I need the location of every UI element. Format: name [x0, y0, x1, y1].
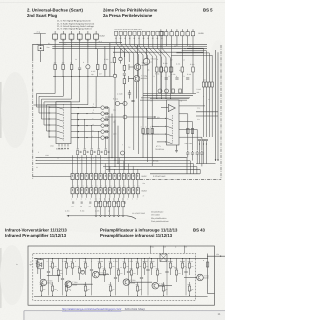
resistor R18: [131, 259, 133, 270]
transistor T2115: [86, 65, 90, 69]
IC bottom pins: [58, 144, 60, 147]
IC71 internal switch column: [172, 115, 174, 143]
fan pin numbers: [115, 37, 117, 39]
wire contact drop 2: [111, 114, 113, 158]
transistor T7310: [65, 281, 72, 288]
capacitor at 62.5: [62, 259, 64, 279]
wire diode top: [40, 258, 42, 259]
wires IC outputs right: [71, 107, 101, 109]
output wire to page edge: [208, 255, 225, 257]
wire fan collector: [150, 98, 189, 100]
wire audio 21b: [59, 42, 122, 44]
right margin resistors: [202, 82, 204, 87]
capacitor at 148: [147, 259, 149, 270]
links row A to row B: [72, 180, 74, 188]
resistor R26: [176, 259, 178, 270]
wires from BU55 pins down: [160, 36, 162, 67]
wire between bubbles: [120, 103, 123, 105]
contact bubble g: [115, 101, 119, 105]
capacitor C2130: [131, 100, 134, 101]
resistor R5: [58, 259, 60, 270]
caps cluster below IC71: [186, 153, 189, 154]
resistor R3: [52, 259, 54, 263]
chassis boundary left solid: [32, 44, 34, 58]
wire right margin v1: [215, 50, 217, 161]
wire from border to switch IC: [34, 104, 57, 106]
resistor R13: [104, 259, 106, 270]
capacitor at 48.5: [48, 259, 50, 272]
ground bracket: [67, 215, 127, 217]
resistor R28: [189, 259, 191, 263]
ground symbol: [175, 151, 178, 153]
resistor row below connector: [95, 198, 97, 202]
wires IC outputs down to RC pairs: [77, 114, 79, 150]
small caps below connector: [72, 202, 74, 203]
resistor R29: [189, 282, 191, 286]
contact circles row right: [158, 89, 162, 93]
capacitor at 115.5: [115, 259, 117, 278]
capacitor at 167: [166, 259, 168, 272]
IC left pins with switch arms: [51, 106, 57, 108]
capacitor C2127: [128, 93, 131, 94]
junction dots scart bus: [108, 157, 109, 158]
resistor R right column: [206, 262, 208, 267]
IC71 ground stub: [176, 145, 178, 151]
resistor R12: [99, 259, 101, 263]
resistor R2117: [96, 65, 99, 70]
IC IC71 TEA2014: [167, 100, 180, 145]
scart bus horizontal wires: [36, 157, 188, 159]
resistor R2125: [123, 79, 126, 84]
resistor R2121: [113, 58, 116, 63]
resistor R2: [41, 282, 43, 286]
legend pin functions: [57, 20, 95, 31]
resistor R14: [110, 259, 112, 263]
bus wire frame top: [32, 43, 207, 45]
header title German/English: [27, 8, 83, 19]
contact bubble mid: [81, 270, 85, 274]
footer rule: [24, 310, 225, 312]
base connection wires: [47, 275, 61, 277]
resistor R20: [137, 282, 139, 286]
wires transistor outputs to right: [143, 93, 196, 95]
resistors right of IC71: [187, 129, 190, 134]
IC71 right pins: [179, 105, 205, 107]
capacitor at 186: [185, 259, 187, 272]
transistor T7320: [123, 279, 130, 286]
resistor R2118: [104, 65, 107, 70]
resistor R19: [137, 259, 139, 263]
resistor R22: [151, 259, 153, 263]
transistor T7305: [40, 279, 47, 286]
resistor R27: [182, 259, 184, 263]
resistor R2113: [70, 65, 73, 70]
resistor R10: [85, 259, 87, 263]
wire stub: [108, 107, 110, 109]
wire border to connector: [33, 176, 71, 178]
resistor R21: [144, 259, 146, 263]
wire contact drop 4: [117, 126, 119, 164]
resistor R2123: [123, 65, 126, 70]
contact bubble h: [123, 101, 127, 105]
resistor R7: [66, 282, 68, 286]
connector BU52 top row contacts: [53, 31, 99, 39]
resistor R24: [163, 282, 165, 286]
IC internal switch column: [63, 104, 65, 141]
wires from BU52 pins down: [54, 39, 56, 64]
transistor T7325: [152, 282, 159, 289]
wires into connector row A: [72, 155, 74, 173]
fan resistors mid row: [142, 129, 145, 134]
bracket curve: [127, 216, 136, 219]
caps row BU55 columns: [165, 78, 168, 79]
op-amp triangle inside IC71: [168, 105, 175, 112]
resistor R23: [157, 259, 159, 270]
arrowheads right margin: [215, 159, 217, 161]
bus wire lower: [52, 48, 207, 50]
RC pairs above connector: [77, 151, 79, 155]
second header French/Italian: [100, 228, 178, 239]
scan mottling: [0, 82, 2, 138]
wire to R2121: [113, 46, 115, 57]
transistor above connector: [121, 151, 125, 155]
wire right margin h3: [196, 163, 216, 165]
transistor T2125: [134, 64, 140, 70]
contact bubble 21c: [119, 57, 122, 60]
resistor R6: [66, 259, 68, 263]
coil L7327: [160, 254, 167, 262]
wire contact drop 1: [108, 108, 110, 172]
wires from IC71 right pins down: [187, 114, 189, 151]
capacitor at 91.5: [91, 259, 93, 270]
IC71 input pin top: [161, 107, 168, 109]
stepped wires entering switch IC: [37, 77, 56, 108]
header title French/Italian: [103, 8, 158, 19]
chassis boundary bottom dash-dot: [140, 179, 221, 181]
wire T7125-T7120: [137, 70, 139, 75]
wires into box from labels above: [150, 246, 152, 254]
supply rail +: [34, 257, 208, 259]
bus wire third: [113, 51, 204, 53]
wire right margin h1: [196, 111, 218, 113]
resistor R2112: [62, 65, 65, 70]
resistor R17: [124, 259, 126, 263]
wire T7125 collector: [137, 45, 139, 64]
right margin caps cluster: [198, 139, 201, 140]
wire contact drop 3: [114, 120, 116, 161]
wire merged bus: [150, 173, 200, 175]
wire to border bottom: [208, 293, 215, 295]
stubs below row B: [72, 194, 74, 198]
wire T7120 emitter: [136, 82, 138, 99]
resistor R2111: [54, 65, 57, 70]
resistor R16: [118, 259, 120, 270]
resistor R15: [110, 282, 112, 286]
resistor R1: [37, 259, 39, 262]
socket bubble and wire to BS41: [105, 116, 123, 118]
capacitor C2114: [78, 68, 81, 69]
bus wire upper: [52, 45, 207, 47]
second header Infrarot German/English: [5, 228, 67, 239]
wire right margin h2: [196, 115, 218, 117]
chassis boundary left dash-dot: [32, 58, 34, 180]
wire right margin v2: [217, 52, 219, 161]
preamp outer border: [28, 246, 215, 305]
transistor T2120: [134, 76, 140, 82]
fan of vertical bus wires: [116, 36, 125, 58]
transistor T7315: [93, 271, 100, 278]
IC switch CA2101: [56, 102, 71, 144]
capacitor C2124: [123, 74, 126, 75]
IR photodiode D7300: [38, 260, 44, 269]
wires BU55 wrap to right margin: [187, 48, 204, 82]
page background: [0, 0, 225, 320]
IC71 left pins: [159, 117, 167, 119]
transistor T2125 base: [129, 64, 134, 70]
contact bubbles column: [101, 106, 105, 110]
wrap down verticals right: [186, 158, 188, 174]
fan resistors top row: [156, 67, 159, 72]
resistor R11: [85, 282, 87, 286]
transistor T7330: [197, 274, 204, 281]
transistor T2120 base: [129, 76, 134, 82]
capacitor at 141.5: [141, 259, 143, 278]
resistor R25: [170, 259, 172, 263]
preamp pcb dashed boundary: [33, 253, 196, 300]
ground rail: [34, 296, 208, 298]
wire to bubble: [120, 49, 122, 58]
transistor T2126: [143, 58, 149, 64]
wire pin 21b down: [109, 43, 111, 77]
capacitor at 128.5: [128, 259, 130, 272]
connector row B contacts: [71, 188, 139, 194]
resistor R9: [79, 259, 81, 268]
resistor R4: [52, 282, 54, 286]
chassis boundary right dash-dot: [220, 45, 222, 180]
wire common lower: [53, 76, 113, 78]
resistor R8: [72, 259, 74, 263]
BU52 pin numbers: [54, 40, 56, 42]
wires bundle to IC71 left pins: [148, 117, 159, 119]
connector row A contacts: [71, 174, 139, 180]
wire T7126 collector: [146, 49, 148, 59]
connector BU55 top right contacts: [159, 29, 195, 36]
bus contact boxes row: [115, 31, 164, 35]
right column vertical: [207, 254, 209, 294]
contact bubble left: [113, 74, 116, 77]
